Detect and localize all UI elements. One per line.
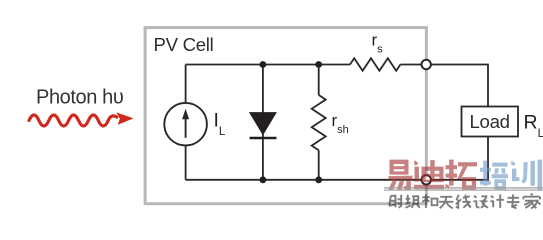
subtitle char 家: [523, 194, 540, 209]
svg-text:Load: Load: [470, 111, 510, 132]
watermark char 易: [389, 160, 413, 190]
load box: [462, 107, 519, 137]
subtitle char 专: [507, 194, 520, 208]
subtitle char 天: [439, 197, 454, 209]
watermark char 培: [480, 161, 508, 190]
subtitle char 频: [405, 195, 419, 208]
wire: top rail left segment: [186, 64, 350, 66]
junction dot bottom diode: [260, 176, 267, 183]
svg-text:IL: IL: [214, 110, 226, 139]
diode cathode bar: [250, 137, 277, 140]
wire: top rail right segment to load: [400, 65, 488, 107]
PV Cell enclosure box: [145, 28, 426, 204]
svg-text:rs: rs: [372, 31, 384, 56]
subtitle char 和: [422, 194, 437, 208]
subtitle char 计: [490, 194, 504, 208]
junction dot bottom r_sh: [315, 176, 322, 183]
wire: diode branch: [262, 65, 264, 180]
svg-text:PV Cell: PV Cell: [154, 34, 214, 55]
subtitle char 设: [473, 196, 488, 208]
watermark char 迪: [414, 160, 444, 189]
wire: bottom rail: [186, 137, 488, 180]
output node bottom (open circle): [422, 175, 431, 184]
diode D1: [249, 112, 277, 135]
svg-text:RL: RL: [524, 111, 543, 140]
subtitle char 线: [456, 195, 471, 208]
watermark logo 易迪拓培训: [384, 160, 543, 209]
watermark double underline: [384, 187, 543, 189]
output node top (open circle): [422, 60, 431, 69]
watermark subtitle 射频和天线设计专家: [389, 194, 541, 209]
watermark char 训: [511, 160, 542, 190]
resistor r_sh zigzag: [312, 95, 326, 150]
wire: r_sh branch upper/lower: [318, 65, 320, 180]
junction dot top r_sh: [315, 61, 322, 68]
current source arrow: [185, 113, 187, 138]
resistor r_s zigzag: [350, 58, 400, 71]
subtitle char 射: [389, 195, 402, 208]
svg-text:rsh: rsh: [332, 111, 349, 136]
watermark char 拓: [446, 160, 478, 190]
photon arrowhead: [116, 112, 133, 124]
junction dot top diode: [260, 61, 267, 68]
wire: left branch (current source): [185, 65, 187, 180]
photon wavy arrow: [29, 115, 117, 126]
current source U1 circle: [164, 103, 207, 146]
svg-text:Photon hυ: Photon hυ: [36, 87, 123, 109]
